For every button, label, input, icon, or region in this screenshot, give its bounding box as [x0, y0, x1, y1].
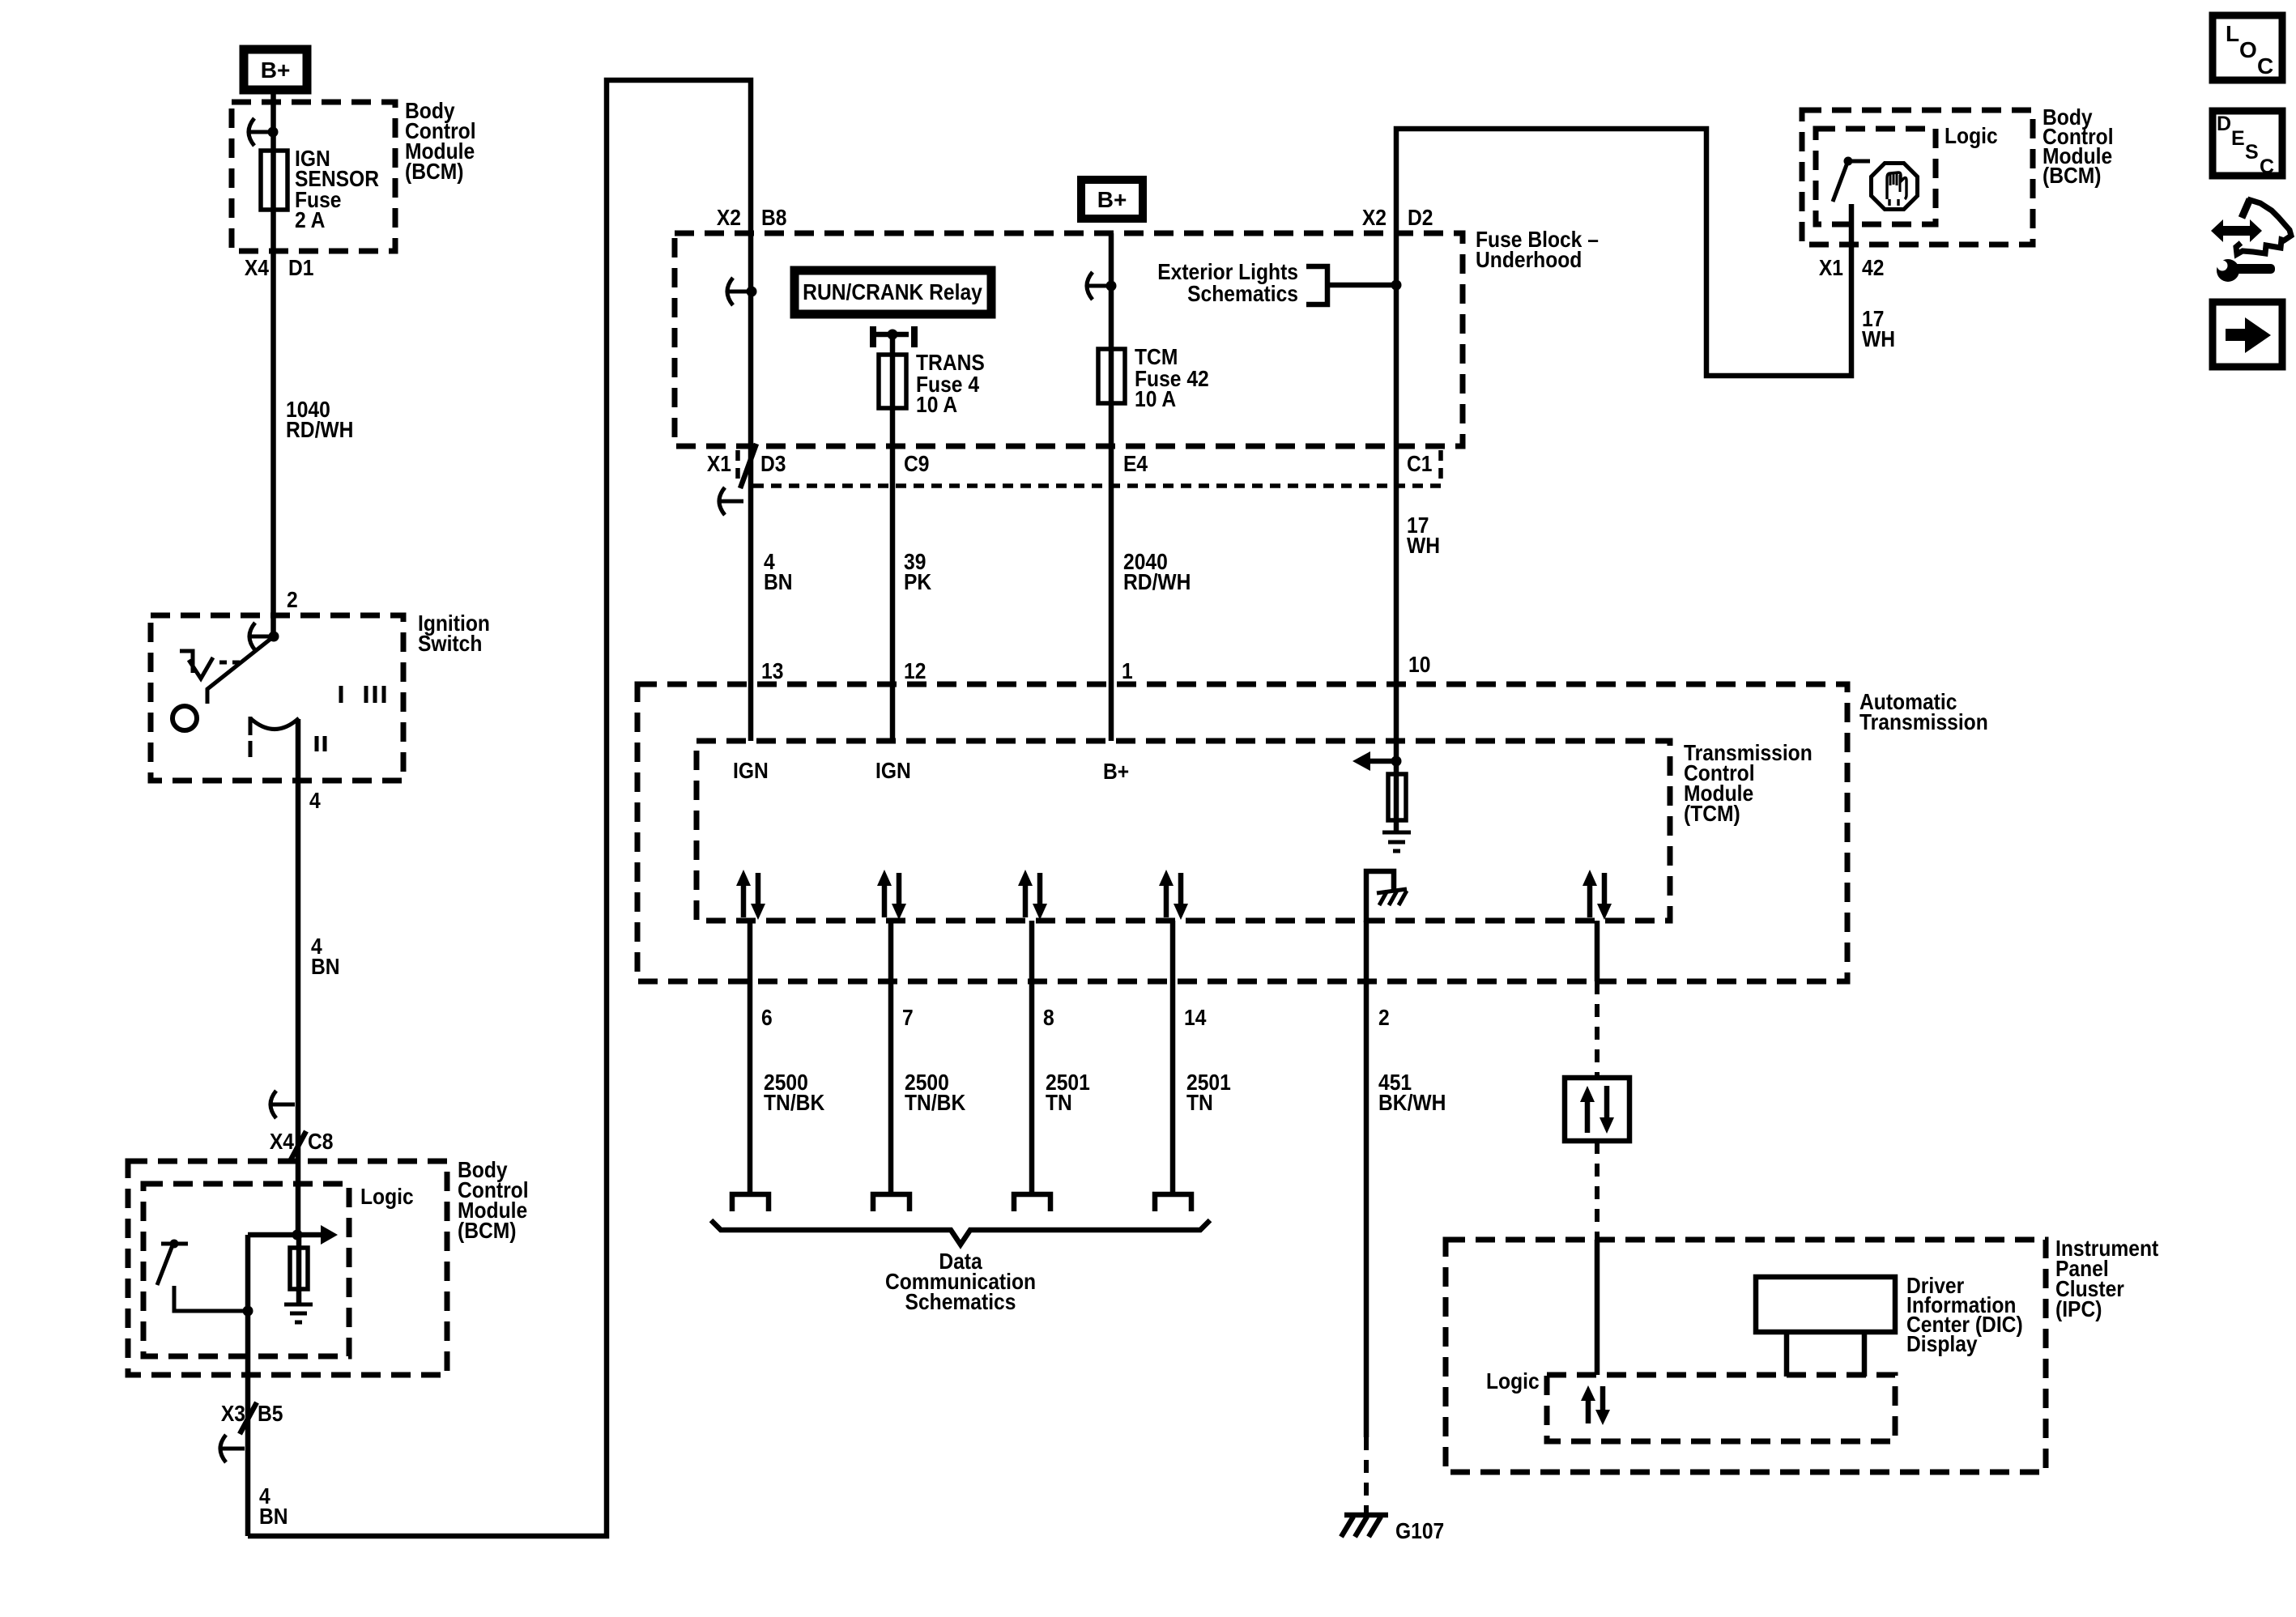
icon: right arrow box: [2213, 302, 2282, 367]
power symbol B+ (battery feed, top left): [244, 49, 307, 90]
wire: TCM pin 6 to data link terminal: [748, 921, 753, 1192]
svg-text:Logic: Logic: [360, 1184, 414, 1210]
svg-text:O: O: [2239, 37, 2257, 62]
connector label X3 | B5: [221, 1401, 283, 1427]
terminal symbol (pin 7 wire end): [873, 1194, 909, 1211]
power symbol B+ (fuse block feed): [1081, 180, 1143, 219]
connector symbol inside fuse block on B8 wire: [727, 278, 757, 305]
terminal symbol (pin 6 wire end): [732, 1194, 769, 1211]
svg-text:WH: WH: [1407, 533, 1440, 559]
svg-text:2: 2: [287, 587, 298, 613]
ignition switch internals: connector hook at pin 2: [249, 623, 279, 650]
BCM logic inner dashed box: [143, 1184, 349, 1356]
svg-text:D1: D1: [288, 255, 313, 281]
driver information center (DIC) display: [1756, 1277, 1895, 1377]
svg-text:D2: D2: [1408, 205, 1433, 231]
TCM pin labels 13, 12, 1, 10: [761, 652, 1430, 684]
svg-text:D3: D3: [760, 451, 786, 477]
wire label 39 PK: [904, 549, 931, 595]
svg-text:IGN: IGN: [875, 758, 911, 784]
svg-text:X1: X1: [1819, 255, 1843, 281]
switch symbol inside BCM logic: [157, 1240, 253, 1317]
connector symbol on TCM fuse feed: [1087, 272, 1117, 300]
connector row labels X1 | D3, C9, E4, C1: [707, 451, 1433, 477]
svg-text:10 A: 10 A: [1135, 386, 1176, 412]
svg-text:13: 13: [761, 658, 783, 684]
svg-text:X2: X2: [717, 205, 741, 231]
label: Fuse Block - Underhood: [1476, 227, 1599, 273]
inline serial data symbol box with arrows: [1565, 1078, 1629, 1141]
reference bracket: Exterior Lights Schematics: [1157, 259, 1401, 307]
svg-text:E4: E4: [1123, 451, 1148, 477]
svg-text:TN/BK: TN/BK: [905, 1090, 965, 1116]
wire: B+ to BCM fuse to ignition switch pin 2 (circuit 1040 RD/WH): [270, 90, 276, 636]
icon: LOC reference box: [2213, 15, 2282, 80]
svg-text:(TCM): (TCM): [1684, 801, 1740, 827]
wire label 451 BK/WH: [1378, 1070, 1446, 1116]
svg-text:(BCM): (BCM): [405, 159, 463, 185]
instrument panel cluster (IPC) dashed outline: [1446, 1240, 2046, 1472]
connector symbol below X1/D3: [719, 487, 743, 515]
svg-text:(BCM): (BCM): [458, 1218, 516, 1244]
label: Body Control Module (BCM) top right: [2043, 104, 2114, 189]
switch position marks I, II, I III: [250, 686, 384, 757]
svg-text:Logic: Logic: [1486, 1368, 1540, 1394]
terminal symbol (pin 14 wire end): [1155, 1194, 1191, 1211]
fuse TRANS Fuse 4 10 A: [879, 350, 985, 418]
body control module (BCM) top-left dashed outline: [232, 102, 395, 251]
svg-text:S: S: [2245, 141, 2259, 164]
wire label 4 BN (fuse block output): [764, 549, 793, 595]
TCM bidirectional arrow pair (pin 8): [1018, 870, 1047, 920]
svg-text:BK/WH: BK/WH: [1378, 1090, 1446, 1116]
wire: relay to TRANS fuse: [890, 334, 896, 741]
svg-text:Logic: Logic: [1945, 123, 1998, 149]
svg-text:WH: WH: [1862, 326, 1895, 352]
ground G107: [1341, 1515, 1444, 1543]
wire label 4 BN: [311, 934, 340, 980]
svg-text:X2: X2: [1362, 205, 1387, 231]
wire label 17 WH (BCM side): [1862, 306, 1895, 352]
svg-text:X1: X1: [707, 451, 731, 477]
connector label X4 | D1: [245, 255, 314, 281]
connector symbol at X3/B5: [220, 1435, 245, 1462]
svg-text:D: D: [2217, 113, 2231, 135]
switch symbol inside BCM logic (top right): [1833, 157, 1870, 202]
svg-text:Schematics: Schematics: [1187, 281, 1298, 307]
svg-text:Underhood: Underhood: [1476, 247, 1582, 273]
wire: ignition switch pin 4 down to BCM (circuit 4 BN): [296, 719, 301, 1236]
connector label X1 | 42: [1819, 255, 1885, 281]
label: Body Control Module (BCM): [405, 98, 476, 185]
TCM bidirectional arrow pair (pin 7): [877, 870, 906, 920]
svg-text:(IPC): (IPC): [2055, 1296, 2102, 1322]
svg-text:E: E: [2231, 127, 2245, 150]
icon: diagnostic connector with two-way arrow and wrench: [2211, 199, 2291, 282]
svg-text:BN: BN: [764, 569, 793, 595]
svg-text:C1: C1: [1407, 451, 1432, 477]
svg-text:IGN: IGN: [733, 758, 769, 784]
svg-text:X4: X4: [270, 1129, 294, 1155]
icon: DESC reference box: [2213, 111, 2282, 178]
BCM logic inner dashed box (top right): [1816, 129, 1936, 224]
svg-text:Schematics: Schematics: [905, 1289, 1016, 1315]
connector row separators and bottom dotted line: [738, 450, 1441, 486]
svg-text:B8: B8: [761, 205, 786, 231]
svg-text:C: C: [2257, 53, 2273, 79]
svg-text:4: 4: [309, 788, 321, 814]
svg-text:L: L: [2226, 21, 2239, 46]
svg-text:RD/WH: RD/WH: [286, 417, 353, 443]
wire: TCM pin 7 to data link terminal: [888, 921, 894, 1192]
fuse block underhood dashed outline: [675, 233, 1463, 446]
svg-text:6: 6: [761, 1005, 773, 1031]
TCM bidirectional arrow pair (serial data to IPC): [1582, 870, 1612, 920]
svg-text:TN: TN: [1046, 1090, 1072, 1116]
wire label 1040 RD/WH: [286, 397, 353, 443]
label: Data Communication Schematics: [885, 1249, 1036, 1315]
svg-text:B+: B+: [1097, 187, 1127, 212]
svg-text:(BCM): (BCM): [2043, 163, 2101, 189]
ground symbol inside TCM: [1382, 832, 1411, 851]
svg-text:2 A: 2 A: [295, 207, 325, 233]
ignition switch movable blade: [207, 636, 274, 704]
TCM internal pin names IGN, IGN, B+: [733, 758, 1129, 785]
resistor inside TCM: [1394, 761, 1399, 831]
wire: long feedback run from BCM B5 up and over to fuse block X2/B8: [248, 80, 751, 1536]
automatic transmission dashed outline: [637, 684, 1847, 981]
BCM logic input node with right arrow: [248, 1225, 338, 1245]
body control module (BCM) top-right dashed outline: [1802, 110, 2033, 245]
svg-text:C8: C8: [308, 1129, 333, 1155]
terminal symbol (pin 8 wire end): [1014, 1194, 1050, 1211]
svg-text:BN: BN: [311, 954, 340, 980]
hand/octagon telltale symbol inside BCM logic: [1872, 164, 1918, 210]
wire: TCM pin 2 to ground G107 (circuit 451 BK/WH): [1364, 921, 1370, 1437]
label: Transmission Control Module (TCM): [1684, 740, 1813, 827]
svg-text:7: 7: [902, 1005, 914, 1031]
ground symbol inside BCM logic: [284, 1304, 313, 1322]
svg-text:TN: TN: [1186, 1090, 1213, 1116]
svg-text:PK: PK: [904, 569, 931, 595]
wire label 2500 TN/BK (pin 7): [905, 1070, 965, 1116]
ignition switch lower contact arc to pin 4: [250, 717, 299, 735]
label: Instrument Panel Cluster (IPC): [2055, 1236, 2158, 1322]
svg-text:10: 10: [1408, 652, 1430, 678]
svg-text:X3: X3: [221, 1401, 245, 1427]
ignition switch OFF position circle: [173, 706, 197, 730]
resistor (pull-down) in BCM logic: [290, 1235, 308, 1304]
svg-text:RUN/CRANK Relay: RUN/CRANK Relay: [803, 279, 982, 305]
connector label X4 | C8: [270, 1129, 334, 1155]
svg-text:BN: BN: [259, 1504, 288, 1530]
svg-text:TN/BK: TN/BK: [764, 1090, 824, 1116]
IPC logic bidirectional arrow pair: [1581, 1385, 1610, 1425]
connector crossing slash X3/B5: [240, 1402, 257, 1434]
wire: BCM logic node down to X3/B5: [245, 1235, 251, 1536]
svg-text:B5: B5: [258, 1401, 283, 1427]
svg-text:B+: B+: [261, 57, 291, 83]
svg-text:Transmission: Transmission: [1859, 709, 1988, 735]
svg-text:G107: G107: [1395, 1518, 1444, 1544]
label: Ignition Switch: [418, 611, 490, 657]
wire label 4 BN (below BCM): [259, 1483, 288, 1530]
svg-text:1: 1: [1122, 658, 1133, 684]
TCM bidirectional arrow pair (pin 6): [736, 870, 765, 920]
svg-text:14: 14: [1184, 1005, 1207, 1031]
wire: TCM serial data to IPC (dashed): [1595, 921, 1600, 981]
wire label 2501 TN (pin 8): [1046, 1070, 1090, 1116]
fuse TCM Fuse 42 10 A: [1098, 344, 1209, 412]
label: Automatic Transmission: [1859, 689, 1988, 735]
TCM internal node: left arrow, resistor, ground on pin 10: [1352, 751, 1402, 771]
connector crossing slash X1/D3: [740, 444, 756, 488]
svg-text:12: 12: [904, 658, 926, 684]
wire: B+ down through TCM fuse to TCM pin 1 (circuit 2040 RD/WH): [1109, 233, 1114, 741]
wire label 17 WH (to TCM pin 10): [1407, 513, 1440, 559]
wire label 2500 TN/BK (pin 6): [764, 1070, 824, 1116]
TCM chassis ground hook on pin 2 wire: [1366, 871, 1407, 922]
svg-text:Display: Display: [1906, 1331, 1978, 1357]
ignition switch dashed outline: [151, 615, 403, 781]
svg-text:C9: C9: [904, 451, 929, 477]
label: Driver Information Center (DIC) Display: [1906, 1273, 2023, 1357]
IPC logic inner dashed box: [1547, 1375, 1895, 1441]
connector symbol at X4/C8: [270, 1091, 295, 1118]
svg-text:RD/WH: RD/WH: [1123, 569, 1191, 595]
svg-text:C: C: [2260, 155, 2274, 178]
connector symbol at BCM internal node: [249, 118, 279, 146]
connector label X2 | D2: [1362, 205, 1433, 231]
svg-text:10 A: 10 A: [916, 392, 957, 418]
wire label 2040 RD/WH: [1123, 549, 1191, 595]
svg-text:Switch: Switch: [418, 631, 482, 657]
svg-text:X4: X4: [245, 255, 269, 281]
label: Body Control Module (BCM) bottom-left: [458, 1157, 529, 1244]
wire: TCM pin 8 to data link terminal: [1029, 921, 1035, 1192]
relay output fork terminals: [873, 326, 914, 347]
wire: fuse block X2/D2 to BCM X1/42 (circuit 17 WH): [1396, 129, 1851, 761]
connector label X2 | B8: [717, 205, 787, 231]
svg-text:42: 42: [1862, 255, 1884, 281]
wire: TCM pin 14 to data link terminal: [1170, 921, 1176, 1192]
wire label 2501 TN (pin 14): [1186, 1070, 1231, 1116]
relay label box RUN/CRANK Relay: [794, 270, 991, 314]
body control module (BCM) bottom-left dashed outline: [128, 1161, 447, 1375]
transmission control module (TCM) dashed outline: [696, 741, 1670, 921]
svg-text:2: 2: [1378, 1005, 1390, 1031]
ignition key symbol: [180, 651, 245, 679]
brace grouping data wires: [711, 1220, 1210, 1245]
TCM bidirectional arrow pair (pin 14): [1159, 870, 1188, 920]
connector crossing slash X4/C8: [289, 1131, 306, 1163]
fuse IGN SENSOR Fuse 2 A: [261, 146, 379, 233]
svg-text:B+: B+: [1103, 759, 1129, 785]
svg-text:8: 8: [1043, 1005, 1054, 1031]
TCM pin labels 6, 7, 8, 14, 2: [761, 1005, 1390, 1031]
